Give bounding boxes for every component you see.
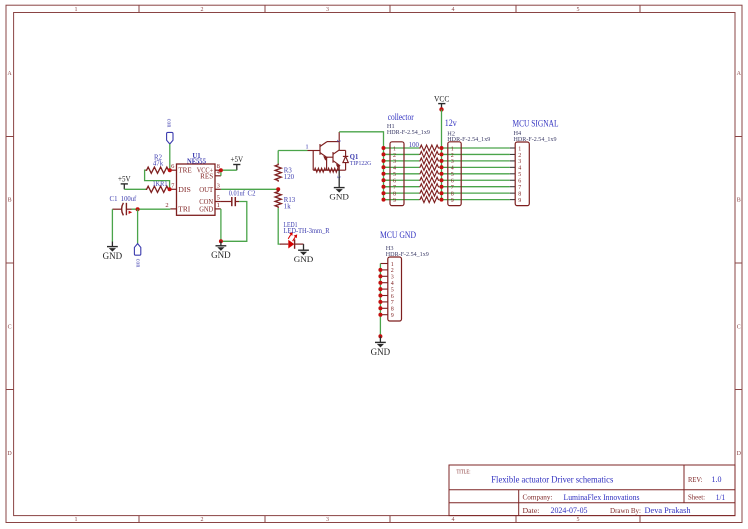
resistor R2 47k: [145, 167, 169, 173]
svg-text:C: C: [737, 325, 741, 331]
svg-text:2: 2: [518, 153, 521, 159]
svg-text:B: B: [737, 198, 741, 204]
svg-text:3: 3: [326, 517, 329, 523]
svg-text:3: 3: [451, 159, 454, 165]
wire H3 ground bus: [379, 264, 381, 337]
svg-text:A: A: [737, 71, 742, 77]
svg-text:5: 5: [518, 172, 521, 178]
svg-text:4: 4: [452, 517, 455, 523]
svg-text:7: 7: [393, 185, 396, 191]
svg-text:2: 2: [393, 153, 396, 159]
H1 pin stubs: [384, 148, 391, 200]
netflag con (bottom): [134, 244, 141, 268]
svg-text:3: 3: [393, 159, 396, 165]
LED1 labels: [284, 222, 330, 235]
svg-text:120: 120: [284, 174, 295, 181]
svg-text:DIS: DIS: [178, 186, 191, 194]
svg-text:GND: GND: [199, 206, 213, 214]
power VCC symbol: [434, 93, 450, 109]
svg-text:3: 3: [326, 7, 329, 13]
svg-text:3: 3: [391, 275, 394, 281]
svg-text:2: 2: [451, 153, 454, 159]
svg-text:1: 1: [451, 146, 454, 152]
svg-text:TRE: TRE: [178, 167, 192, 175]
R1 label 1KR1: [153, 181, 168, 188]
svg-text:7: 7: [518, 185, 521, 191]
svg-text:6: 6: [393, 179, 396, 185]
net label collector: [388, 113, 415, 123]
svg-text:2: 2: [165, 202, 168, 209]
H3 labels: [386, 245, 429, 258]
svg-text:+5V: +5V: [118, 174, 131, 183]
wire 12v bus: [441, 109, 443, 199]
svg-text:5: 5: [393, 172, 396, 178]
wire TRI node down to con flag: [137, 209, 139, 243]
svg-text:+5V: +5V: [231, 155, 244, 164]
wire +5V to R1: [124, 188, 146, 190]
svg-text:RES: RES: [200, 173, 213, 181]
svg-text:VCC: VCC: [434, 93, 450, 103]
svg-text:GND: GND: [294, 255, 314, 264]
Q1 base wire label 1: [305, 144, 308, 151]
svg-text:Drawn By:: Drawn By:: [610, 508, 641, 515]
svg-text:LuminaFlex Innovations: LuminaFlex Innovations: [564, 492, 640, 502]
svg-text:8: 8: [391, 307, 394, 313]
resistor 100 row 5: [419, 171, 441, 177]
svg-text:2024-07-05: 2024-07-05: [551, 505, 589, 515]
R3 labels: [284, 167, 295, 181]
junction OUT node: [276, 187, 280, 191]
svg-text:collector: collector: [388, 113, 415, 123]
svg-text:5: 5: [391, 287, 394, 293]
resistor 100 row 6: [419, 177, 441, 183]
wire OUT node to Q1 base riser: [277, 151, 279, 164]
svg-text:4: 4: [391, 281, 394, 287]
svg-text:4: 4: [393, 166, 396, 172]
junction TRE node: [168, 168, 172, 172]
svg-text:TITLE:: TITLE:: [457, 468, 471, 475]
svg-text:8: 8: [518, 192, 521, 198]
svg-text:1: 1: [391, 262, 394, 268]
wire RES pin up to VCC net: [220, 170, 222, 176]
svg-text:2: 2: [391, 268, 394, 274]
net label MCU GND: [380, 231, 416, 241]
op-amp U1 NE555 timer IC body: [170, 164, 221, 215]
wire VCC+ pin to +5V: [221, 169, 237, 171]
resistor R13 1k: [275, 190, 281, 208]
svg-text:OUT: OUT: [199, 186, 214, 194]
svg-text:GND: GND: [329, 192, 349, 201]
junction H3 gnd: [378, 334, 382, 338]
junction TRI node: [136, 207, 140, 211]
+5V power symbol (IC VCC): [231, 155, 244, 170]
svg-text:TIP122G: TIP122G: [350, 160, 372, 167]
svg-text:6: 6: [391, 294, 394, 300]
junctions 12v bus: [440, 146, 444, 202]
svg-text:0.01uf: 0.01uf: [229, 191, 246, 198]
svg-text:4: 4: [451, 166, 454, 172]
svg-text:con: con: [165, 119, 171, 128]
svg-text:6: 6: [451, 179, 454, 185]
resistor 100 row 7: [419, 184, 441, 190]
svg-text:2: 2: [201, 517, 204, 523]
netflag con (top): [165, 119, 173, 144]
svg-text:100uf: 100uf: [121, 196, 137, 203]
svg-text:12v: 12v: [445, 119, 457, 129]
svg-text:1: 1: [305, 144, 308, 151]
resistor 100 row 8: [419, 190, 441, 196]
wire OUT pin 3 to R3/R13 node: [221, 188, 278, 190]
svg-text:REV:: REV:: [688, 476, 703, 484]
junction VCC: [439, 107, 443, 111]
wire C2 to GND return: [221, 202, 247, 242]
svg-text:5: 5: [577, 517, 580, 523]
junctions H1 bus: [382, 146, 386, 202]
wire C1 right to TRI: [132, 208, 171, 210]
svg-text:8: 8: [451, 192, 454, 198]
svg-text:5: 5: [451, 172, 454, 178]
svg-text:D: D: [737, 451, 742, 457]
svg-text:1: 1: [75, 517, 78, 523]
resistor 100 row 4: [419, 164, 441, 170]
svg-text:C: C: [8, 325, 12, 331]
junctions H3 bus: [378, 268, 382, 317]
R2 labels: [153, 155, 164, 168]
wire R13 to LED1: [278, 208, 280, 244]
svg-text:47k: 47k: [153, 160, 164, 167]
H1 labels: [387, 123, 430, 136]
svg-text:1: 1: [518, 146, 521, 152]
svg-text:Flexible actuator Driver schem: Flexible actuator Driver schematics: [491, 476, 613, 486]
resistor 100 row 1: [419, 145, 441, 151]
svg-text:2: 2: [335, 140, 341, 143]
H3 pin stubs: [380, 264, 387, 315]
wires rows to H4: [442, 148, 510, 200]
connector H4 body: [515, 142, 529, 206]
svg-text:A: A: [7, 71, 12, 77]
resistor 100 row 3: [419, 158, 441, 164]
svg-text:GND: GND: [103, 251, 123, 261]
svg-text:Company:: Company:: [523, 495, 553, 502]
wire con to TRE: [169, 144, 171, 170]
svg-text:7: 7: [391, 300, 394, 306]
svg-text:4: 4: [518, 166, 521, 172]
svg-text:MCU GND: MCU GND: [380, 231, 416, 241]
LED1 LED-TH-3mm_R: [280, 233, 304, 249]
svg-text:1: 1: [393, 146, 396, 152]
svg-text:3: 3: [217, 182, 220, 189]
ground (Q1 emitter): [329, 170, 349, 201]
svg-text:6: 6: [518, 179, 521, 185]
svg-text:TRI: TRI: [178, 205, 191, 213]
svg-text:9: 9: [391, 313, 394, 319]
wire GND pin 1 down: [220, 209, 222, 241]
svg-text:2: 2: [201, 7, 204, 13]
svg-text:1: 1: [75, 7, 78, 13]
C1 labels: [110, 196, 137, 203]
R13 labels: [284, 197, 296, 211]
ground (H3): [371, 336, 391, 357]
svg-text:B: B: [8, 198, 12, 204]
svg-text:GND: GND: [371, 347, 391, 357]
svg-text:C2: C2: [248, 190, 257, 197]
svg-text:1/1: 1/1: [716, 493, 726, 502]
resistor 100 row 9: [419, 197, 441, 203]
svg-text:1KR1: 1KR1: [153, 181, 168, 188]
svg-text:1.0: 1.0: [712, 474, 723, 484]
resistor R3 120: [275, 164, 281, 182]
svg-text:Date:: Date:: [523, 508, 540, 515]
Q1 pin number 2: [335, 140, 341, 143]
svg-text:Deva Prakash: Deva Prakash: [645, 505, 692, 515]
capacitor C2 0.01uf: [221, 197, 239, 206]
junction VCC+ pin 8: [219, 168, 223, 172]
net label MCU SIGNAL: [513, 119, 559, 129]
junction DIS node: [168, 187, 172, 191]
wire Q1 collector to H1 bus: [339, 132, 383, 148]
wire C1 left down to ground: [111, 209, 113, 241]
svg-text:con: con: [134, 259, 140, 268]
junction GND return: [219, 239, 223, 243]
resistor 100 row 2: [419, 151, 441, 157]
svg-text:LED-TH-3mm_R: LED-TH-3mm_R: [284, 228, 330, 235]
C2 labels: [229, 190, 256, 197]
svg-text:7: 7: [451, 185, 454, 191]
transistor Q1 TIP122G: [308, 132, 349, 172]
ground (C1): [103, 242, 123, 262]
svg-text:9: 9: [451, 198, 454, 204]
svg-text:GND: GND: [211, 250, 231, 260]
ground (LED1): [294, 244, 314, 264]
resistor R1 1K: [145, 186, 169, 192]
svg-text:Sheet:: Sheet:: [688, 495, 705, 502]
connector H3 body: [388, 257, 402, 321]
U1 pin numbers: [165, 163, 220, 209]
ground (U1): [211, 241, 231, 260]
Q1 labels: [350, 153, 372, 167]
Q1 pin number 3: [335, 176, 341, 179]
H4 labels: [514, 130, 557, 143]
svg-text:9: 9: [518, 198, 521, 204]
H4 pin stubs: [510, 148, 515, 200]
+5V power symbol (left): [118, 174, 131, 189]
svg-text:D: D: [7, 451, 12, 457]
svg-text:4: 4: [452, 7, 455, 13]
wires H1 rows to resistor network: [384, 148, 420, 200]
U1 reference labels: [187, 153, 207, 166]
svg-text:8: 8: [393, 192, 396, 198]
svg-text:3: 3: [518, 159, 521, 165]
capacitor C1 100uf (polarized): [112, 203, 132, 216]
H2 labels: [447, 130, 490, 143]
svg-text:5: 5: [577, 7, 580, 13]
svg-text:NE555: NE555: [187, 159, 207, 166]
svg-text:1: 1: [217, 202, 220, 209]
wire Q1 base: [278, 150, 307, 152]
svg-text:C1: C1: [110, 196, 118, 203]
svg-text:5: 5: [217, 195, 220, 202]
svg-text:9: 9: [393, 198, 396, 204]
wire H1 bus (collector net): [383, 148, 385, 200]
svg-text:1k: 1k: [284, 204, 291, 211]
svg-text:100: 100: [409, 142, 420, 149]
svg-text:MCU SIGNAL: MCU SIGNAL: [513, 119, 559, 129]
connector H1 body: [390, 142, 404, 206]
svg-text:3: 3: [335, 176, 341, 179]
net label 12v: [445, 119, 457, 129]
svg-text:HDR-F-2.54_1x9: HDR-F-2.54_1x9: [387, 129, 430, 136]
wire R2 left to DIS net: [145, 170, 170, 189]
connector H2 body: [448, 142, 461, 206]
value label 100: [409, 142, 420, 149]
